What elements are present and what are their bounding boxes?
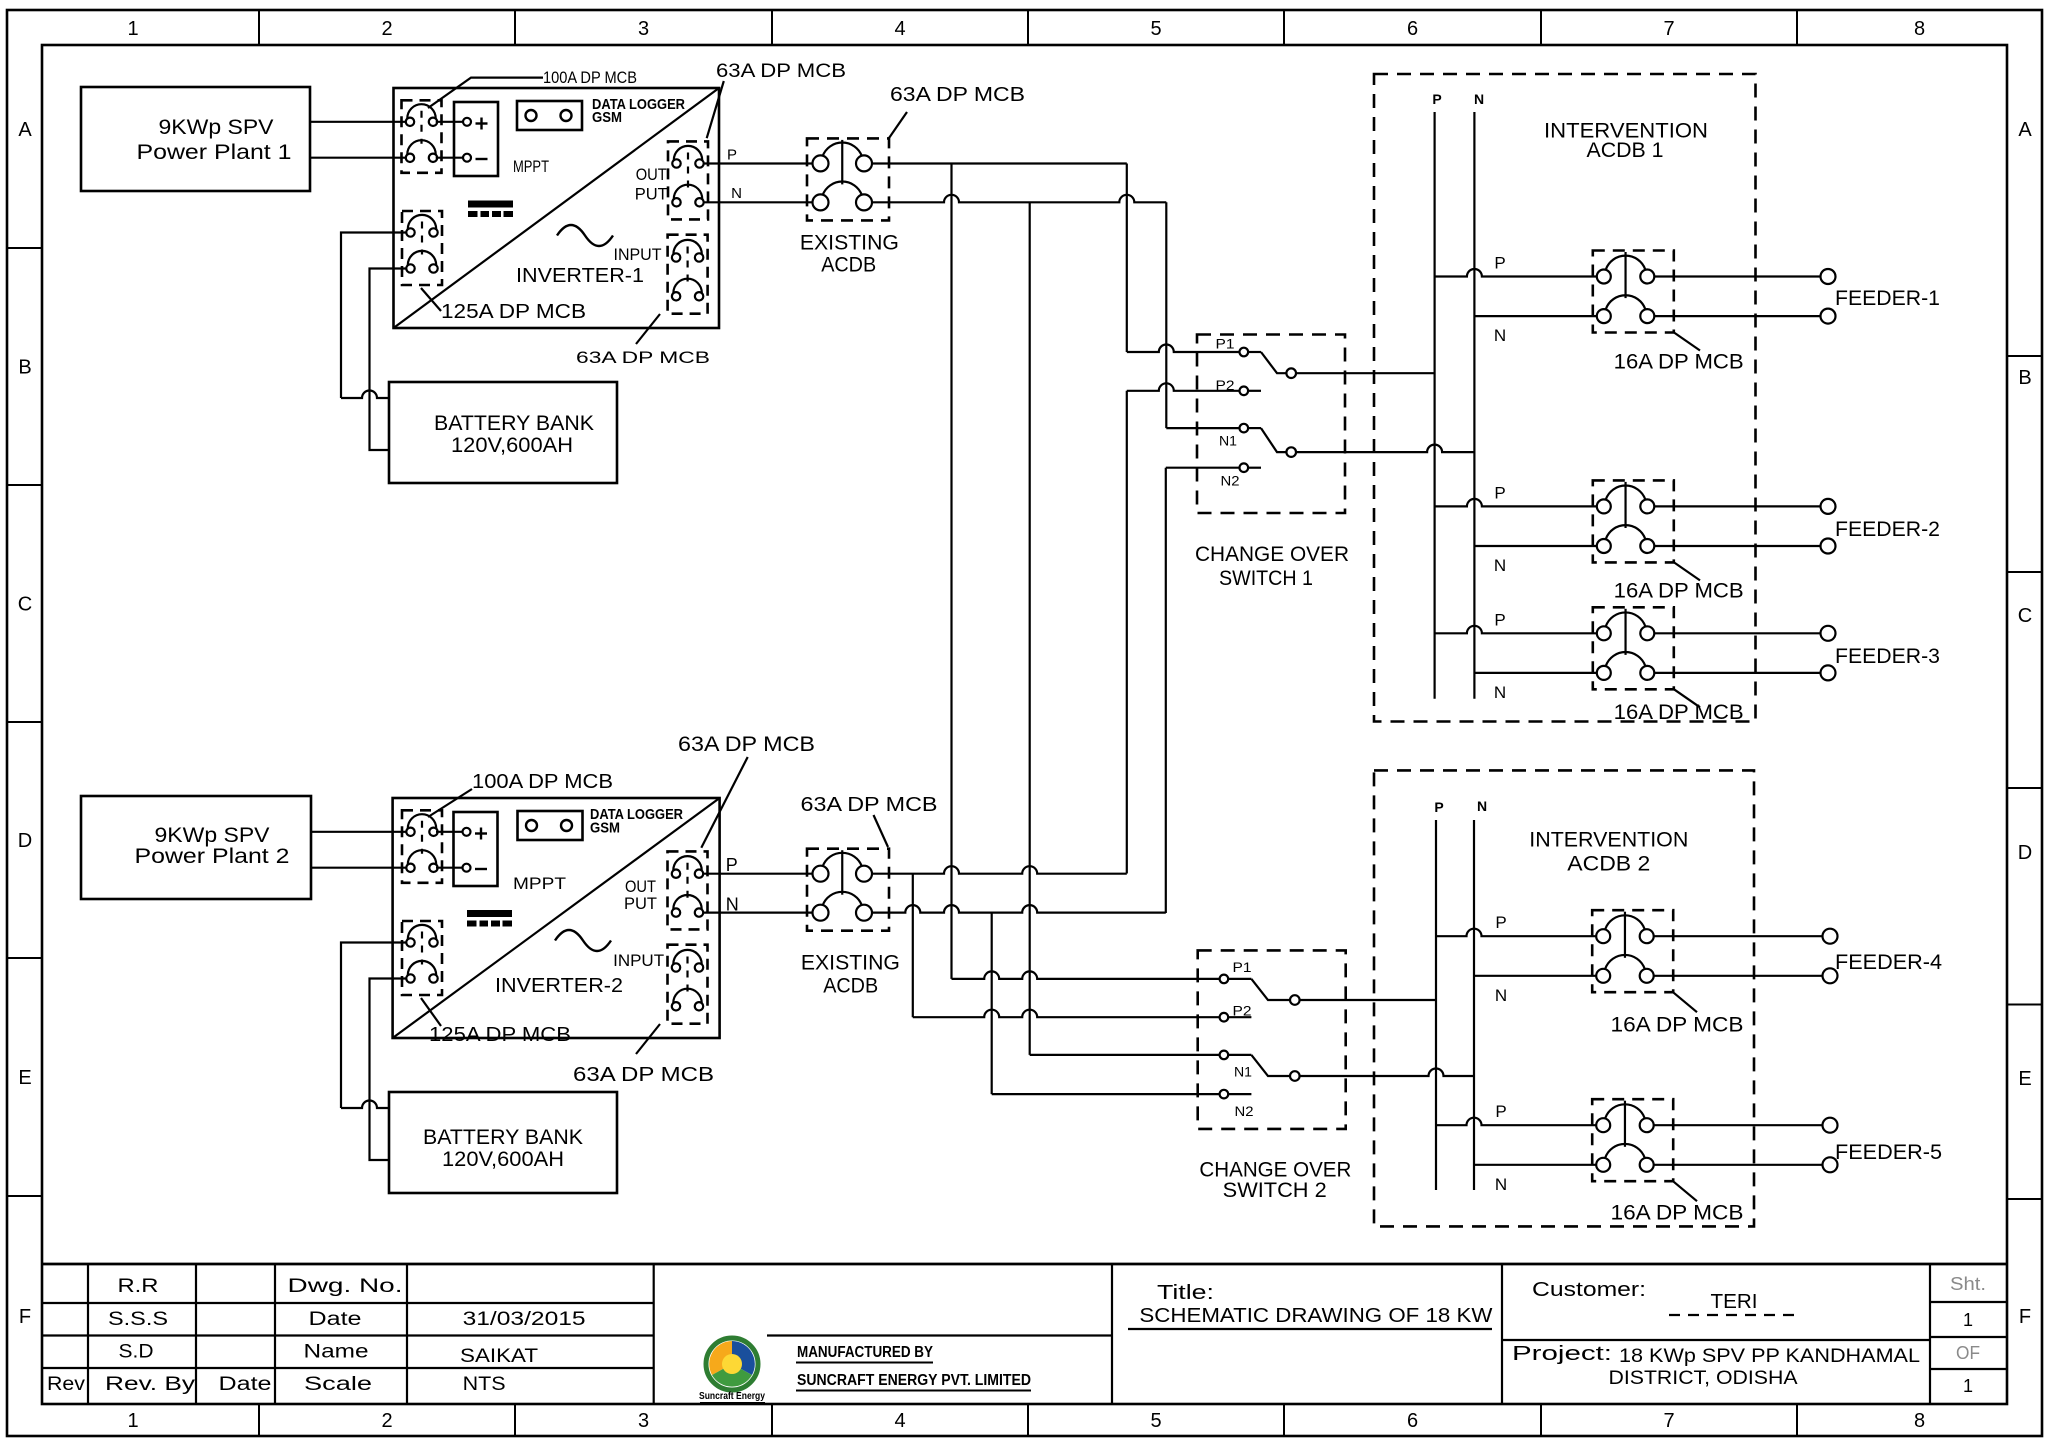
symbol: AC sine (inverter 1): [557, 225, 613, 246]
switch: CHANGE OVER SWITCH 1: [1197, 335, 1345, 514]
svg-text:SUNCRAFT ENERGY PVT. LIMITED: SUNCRAFT ENERGY PVT. LIMITED: [797, 1372, 1031, 1389]
svg-text:3: 3: [638, 1410, 649, 1432]
svg-text:N: N: [731, 185, 742, 202]
wire: 100A MCB to MPPT +: [436, 121, 463, 123]
terminal: FEEDER-3 N: [1821, 665, 1836, 680]
svg-text:9KWp SPV: 9KWp SPV: [155, 824, 270, 847]
svg-text:6: 6: [1407, 18, 1418, 40]
breaker: 16A DP MCB (FEEDER-4): [1592, 910, 1673, 992]
wire: changeover2 P output to ACDB2 P bus: [1300, 999, 1436, 1001]
svg-text:ACDB: ACDB: [823, 975, 878, 998]
terminal: FEEDER-2 P: [1821, 499, 1836, 514]
svg-text:INPUT: INPUT: [614, 245, 662, 264]
label: CHANGE OVER SWITCH 2: [1199, 1159, 1351, 1202]
svg-text:PUT: PUT: [624, 894, 657, 913]
svg-text:4: 4: [894, 18, 905, 40]
svg-text:FEEDER-4: FEEDER-4: [1835, 951, 1942, 974]
svg-text:E: E: [18, 1067, 31, 1089]
svg-text:N: N: [1494, 326, 1506, 345]
wire: FEEDER-3 N out: [1655, 672, 1822, 674]
svg-text:1: 1: [1963, 1310, 1973, 1330]
breaker: 100A DP MCB (PV input, inverter 2): [402, 810, 442, 883]
wire: FEEDER-4 N out: [1654, 975, 1823, 977]
wire: FEEDER-2 P out: [1655, 505, 1822, 507]
wire: changeover1 N output to ACDB1 N bus: [1296, 445, 1474, 453]
svg-text:Date: Date: [309, 1309, 362, 1330]
svg-text:18 KWp SPV PP KANDHAMAL: 18 KWp SPV PP KANDHAMAL: [1619, 1346, 1920, 1367]
svg-text:MPPT: MPPT: [513, 874, 566, 893]
label: 100A DP MCB (leader, inverter 2): [428, 771, 613, 817]
wire: FEEDER-3 P out: [1655, 632, 1822, 634]
svg-text:N: N: [1477, 798, 1487, 814]
svg-text:Dwg. No.: Dwg. No.: [288, 1276, 403, 1297]
wire: battery 1 lead B: [370, 269, 407, 451]
label: EXISTING ACDB (2): [801, 952, 900, 998]
svg-text:BATTERY BANK: BATTERY BANK: [423, 1126, 583, 1149]
svg-text:GSM: GSM: [590, 820, 620, 837]
svg-text:F: F: [2019, 1306, 2031, 1328]
svg-text:Power Plant 1: Power Plant 1: [137, 141, 292, 164]
inverter: INVERTER-2 enclosure: [393, 798, 720, 1038]
svg-text:63A DP MCB: 63A DP MCB: [890, 84, 1025, 106]
svg-text:P2: P2: [1233, 1004, 1252, 1019]
label: 16A DP MCB (FEEDER-3): [1614, 689, 1744, 724]
svg-text:Scale: Scale: [304, 1374, 372, 1395]
wire: N branch to 16A MCB (FEEDER-5): [1474, 1164, 1596, 1166]
svg-text:63A DP MCB: 63A DP MCB: [576, 349, 710, 367]
svg-text:FEEDER-1: FEEDER-1: [1835, 287, 1940, 310]
wire: FEEDER-2 N out: [1655, 545, 1822, 547]
svg-text:FEEDER-2: FEEDER-2: [1835, 518, 1940, 541]
wire: FEEDER-5 P out: [1654, 1124, 1823, 1126]
svg-text:63A DP MCB: 63A DP MCB: [573, 1064, 714, 1086]
svg-text:N: N: [1494, 556, 1506, 575]
label: 16A DP MCB (FEEDER-5): [1611, 1181, 1744, 1224]
svg-text:P: P: [1495, 1102, 1506, 1121]
wire: P feed down to changeover2 P1: [952, 164, 1220, 979]
wire: PV2 negative lead: [311, 867, 406, 869]
symbol: DC link (inverter 1): [468, 201, 513, 218]
wire: PV1 negative lead: [310, 157, 406, 159]
wire: N branch to 16A MCB (FEEDER-4): [1474, 975, 1596, 977]
svg-text:EXISTING: EXISTING: [800, 232, 899, 255]
wire: inverter 1 P to existing ACDB 1: [704, 162, 813, 164]
wire: changeover1 P output to ACDB1 P bus: [1296, 372, 1435, 374]
svg-text:P: P: [1495, 913, 1506, 932]
svg-text:Rev. By: Rev. By: [105, 1374, 196, 1395]
wire: N2 feed up to changeover1 (from ACDB2 N): [1166, 468, 1240, 913]
svg-text:S.D: S.D: [119, 1342, 154, 1363]
box: BATTERY BANK 120V,600AH (1): [389, 382, 617, 483]
wire: FEEDER-1 N out: [1655, 315, 1822, 317]
svg-text:2: 2: [381, 1410, 392, 1432]
switch: CHANGE OVER SWITCH 2: [1198, 950, 1346, 1129]
breaker: 63A DP MCB (input, inverter 2): [668, 945, 708, 1024]
svg-text:INPUT: INPUT: [613, 951, 664, 970]
module: DATA LOGGER GSM (inverter 1): [517, 96, 685, 130]
net: N bus (ACDB 2): [1474, 798, 1487, 1190]
svg-text:D: D: [18, 830, 32, 852]
wire: inverter 1 N to existing ACDB 1: [704, 201, 813, 203]
wire: P2 feed up to changeover1 (from ACDB2 P): [1126, 391, 1128, 874]
svg-text:5: 5: [1150, 1410, 1161, 1432]
breaker: EXISTING ACDB 63A DP MCB (2): [807, 849, 889, 931]
svg-text:16A DP MCB: 16A DP MCB: [1611, 1013, 1744, 1036]
svg-text:N: N: [1494, 683, 1506, 702]
label: CHANGE OVER SWITCH 1: [1195, 543, 1349, 590]
svg-text:N2: N2: [1235, 1104, 1254, 1119]
svg-text:EXISTING: EXISTING: [801, 952, 900, 975]
svg-text:63A DP MCB: 63A DP MCB: [716, 61, 846, 82]
breaker: 16A DP MCB (FEEDER-5): [1592, 1099, 1673, 1181]
wire: N feed down to changeover2 N1: [1030, 202, 1220, 1055]
wire: battery 2 lead B: [370, 979, 407, 1161]
svg-text:6: 6: [1407, 1410, 1418, 1432]
svg-text:120V,600AH: 120V,600AH: [442, 1148, 564, 1171]
svg-text:MPPT: MPPT: [513, 157, 549, 176]
wire: inverter 2 P to existing ACDB 2: [704, 873, 813, 875]
label: 16A DP MCB (FEEDER-1): [1614, 333, 1744, 374]
wire: N branch to 16A MCB (FEEDER-2): [1474, 545, 1596, 547]
svg-text:Rev: Rev: [47, 1374, 86, 1395]
panel: INTERVENTION ACDB 2: [1374, 770, 1754, 1226]
svg-text:Project:: Project:: [1512, 1343, 1612, 1365]
wire: inverter 2 N to existing ACDB 2: [704, 911, 813, 913]
svg-text:P2: P2: [1216, 378, 1235, 393]
wire: P from ACDB2 up to changeover1 P2: [873, 866, 1127, 873]
symbol: AC sine (inverter 2): [555, 930, 611, 951]
box: 9KWp SPV Power Plant 1: [81, 87, 310, 191]
charge controller: MPPT (inverter 2): [454, 812, 567, 893]
svg-text:A: A: [2018, 119, 2032, 141]
svg-text:MANUFACTURED BY: MANUFACTURED BY: [797, 1344, 933, 1361]
svg-text:N: N: [1495, 1175, 1507, 1194]
svg-text:E: E: [2018, 1068, 2031, 1090]
svg-text:1: 1: [127, 1410, 138, 1432]
svg-text:16A DP MCB: 16A DP MCB: [1611, 1202, 1744, 1225]
svg-text:63A DP MCB: 63A DP MCB: [678, 733, 815, 756]
svg-text:7: 7: [1663, 1410, 1674, 1432]
panel: INTERVENTION ACDB 1: [1374, 74, 1756, 722]
svg-text:16A DP MCB: 16A DP MCB: [1614, 351, 1744, 374]
terminal: FEEDER-1 N: [1821, 309, 1836, 324]
svg-text:P: P: [1432, 91, 1441, 107]
wire: P from ACDB1 to changeover1 P1: [873, 164, 1240, 353]
terminal: FEEDER-3 P: [1821, 626, 1836, 641]
wire: N branch down to changeover2 N2: [992, 913, 1219, 1095]
breaker: 100A DP MCB (PV input, inverter 1): [402, 100, 442, 173]
svg-text:N1: N1: [1219, 434, 1237, 449]
wire: 100A MCB to MPPT - (2): [436, 867, 463, 869]
terminal: FEEDER-4 N: [1823, 968, 1838, 983]
svg-text:125A DP MCB: 125A DP MCB: [429, 1024, 571, 1046]
svg-text:8: 8: [1914, 18, 1925, 40]
module: DATA LOGGER GSM (inverter 2): [518, 806, 684, 840]
svg-text:Name: Name: [304, 1342, 369, 1363]
wire: battery 2 lead A: [341, 943, 406, 1109]
svg-text:5: 5: [1150, 18, 1161, 40]
wire: N branch to 16A MCB (FEEDER-1): [1474, 315, 1596, 317]
svg-text:P: P: [726, 855, 738, 875]
label: 63A DP MCB (output leader, inverter 2): [678, 733, 815, 848]
label: 63A DP MCB (input leader, inverter 2): [573, 1024, 714, 1086]
wire: FEEDER-5 N out: [1654, 1164, 1823, 1166]
symbol: DC link (inverter 2): [467, 910, 512, 927]
label: OUT PUT (inverter 1): [635, 165, 668, 204]
wire: P branch to 16A MCB (FEEDER-4): [1436, 929, 1596, 936]
svg-text:16A DP MCB: 16A DP MCB: [1614, 579, 1744, 602]
svg-text:ACDB 2: ACDB 2: [1567, 853, 1650, 876]
breaker: 16A DP MCB (FEEDER-3): [1593, 607, 1674, 689]
svg-text:INVERTER-2: INVERTER-2: [495, 975, 623, 997]
svg-text:P: P: [1494, 610, 1505, 629]
svg-text:ACDB 1: ACDB 1: [1587, 139, 1664, 162]
svg-text:1: 1: [127, 18, 138, 40]
svg-text:P1: P1: [1216, 336, 1235, 351]
svg-text:Power Plant 2: Power Plant 2: [135, 845, 290, 868]
breaker: 16A DP MCB (FEEDER-1): [1593, 251, 1674, 333]
svg-text:OUT: OUT: [636, 165, 667, 184]
svg-text:100A DP MCB: 100A DP MCB: [472, 771, 613, 793]
svg-text:N2: N2: [1221, 473, 1240, 488]
net: N bus (ACDB 1): [1474, 91, 1484, 699]
label: 16A DP MCB (FEEDER-4): [1611, 992, 1744, 1036]
svg-text:N: N: [1474, 91, 1484, 107]
svg-text:SAIKAT: SAIKAT: [460, 1346, 538, 1367]
svg-text:2: 2: [381, 18, 392, 40]
box: BATTERY BANK 120V,600AH (2): [389, 1092, 617, 1193]
wire: P branch to 16A MCB (FEEDER-2): [1435, 499, 1597, 506]
svg-text:63A DP MCB: 63A DP MCB: [801, 794, 938, 816]
label: 63A DP MCB (ACDB 2 leader): [801, 794, 938, 847]
label: 125A DP MCB (leader, inverter 2): [421, 998, 571, 1046]
svg-text:P: P: [727, 147, 737, 164]
svg-text:1: 1: [1963, 1376, 1973, 1396]
breaker: 63A DP MCB (output, inverter 1): [668, 141, 708, 219]
svg-text:SWITCH 2: SWITCH 2: [1223, 1179, 1327, 1202]
title block: [42, 1264, 2007, 1404]
terminal: FEEDER-5 P: [1823, 1118, 1838, 1133]
svg-text:16A DP MCB: 16A DP MCB: [1614, 701, 1744, 724]
svg-text:CHANGE OVER: CHANGE OVER: [1195, 543, 1349, 566]
terminal: FEEDER-2 N: [1821, 539, 1836, 554]
terminal: FEEDER-4 P: [1823, 929, 1838, 944]
wire: PV2 positive lead: [311, 831, 406, 833]
box: 9KWp SPV Power Plant 2: [81, 796, 311, 899]
svg-text:100A DP MCB: 100A DP MCB: [543, 69, 637, 87]
svg-text:GSM: GSM: [592, 109, 622, 126]
svg-text:INVERTER-1: INVERTER-1: [516, 265, 644, 287]
svg-text:C: C: [2018, 605, 2032, 627]
label: 63A DP MCB (ACDB 1 leader): [889, 84, 1025, 138]
svg-text:7: 7: [1663, 18, 1674, 40]
svg-text:9KWp SPV: 9KWp SPV: [159, 116, 274, 139]
wire: FEEDER-4 P out: [1654, 935, 1823, 937]
svg-text:F: F: [19, 1306, 31, 1328]
breaker: 125A DP MCB (battery, inverter 1): [402, 211, 442, 285]
svg-text:Customer:: Customer:: [1532, 1279, 1646, 1301]
breaker: EXISTING ACDB 63A DP MCB (1): [807, 138, 889, 220]
inverter: INVERTER-1 enclosure: [394, 88, 720, 328]
svg-text:S.S.S: S.S.S: [108, 1309, 168, 1330]
svg-text:Suncraft Energy: Suncraft Energy: [699, 1390, 765, 1402]
wire: N from ACDB2 up to changeover1 N2: [873, 905, 1166, 913]
svg-text:TERI: TERI: [1711, 1291, 1758, 1313]
svg-text:NTS: NTS: [463, 1374, 506, 1395]
svg-text:FEEDER-3: FEEDER-3: [1835, 645, 1940, 668]
label: 100A DP MCB (leader): [428, 69, 637, 108]
svg-text:4: 4: [894, 1410, 905, 1432]
svg-text:INTERVENTION: INTERVENTION: [1529, 828, 1688, 851]
svg-text:P: P: [1494, 254, 1505, 273]
net: P bus (ACDB 1): [1432, 91, 1441, 699]
svg-text:FEEDER-5: FEEDER-5: [1835, 1141, 1942, 1164]
terminal: FEEDER-5 N: [1823, 1157, 1838, 1172]
label: 125A DP MCB (leader): [421, 288, 586, 323]
wire: 100A MCB to MPPT -: [436, 157, 463, 159]
svg-text:C: C: [18, 594, 32, 616]
svg-text:PUT: PUT: [635, 185, 668, 204]
svg-text:B: B: [18, 357, 31, 379]
svg-text:N1: N1: [1234, 1065, 1252, 1080]
svg-text:OF: OF: [1956, 1343, 1980, 1363]
svg-text:P: P: [1434, 799, 1443, 815]
wire: FEEDER-1 P out: [1655, 275, 1822, 277]
svg-text:R.R: R.R: [118, 1276, 159, 1297]
svg-text:Date: Date: [219, 1374, 272, 1395]
wire: N branch to 16A MCB (FEEDER-3): [1474, 672, 1596, 674]
label: 63A DP MCB (output leader, inverter 1): [707, 61, 846, 138]
label: OUT PUT (inverter 2): [624, 877, 657, 913]
svg-text:31/03/2015: 31/03/2015: [463, 1309, 586, 1330]
svg-text:D: D: [2018, 842, 2032, 864]
svg-text:SWITCH 1: SWITCH 1: [1219, 567, 1313, 590]
wire: P branch to 16A MCB (FEEDER-1): [1435, 269, 1597, 277]
svg-text:120V,600AH: 120V,600AH: [451, 434, 573, 457]
wire: P branch down to changeover2 P2: [913, 874, 1219, 1018]
charge controller: MPPT (inverter 1): [454, 102, 549, 176]
svg-text:DISTRICT, ODISHA: DISTRICT, ODISHA: [1609, 1368, 1798, 1389]
svg-text:N: N: [1495, 986, 1507, 1005]
svg-text:SCHEMATIC DRAWING OF 18 KW: SCHEMATIC DRAWING OF 18 KW: [1139, 1305, 1492, 1327]
svg-text:Title:: Title:: [1157, 1282, 1214, 1304]
svg-text:A: A: [18, 119, 32, 141]
breaker: 63A DP MCB (input, inverter 1): [668, 235, 708, 314]
svg-text:3: 3: [638, 18, 649, 40]
wire: changeover1 P2 horizontal: [1127, 383, 1240, 391]
wire: changeover2 N output to ACDB2 N bus: [1300, 1069, 1474, 1077]
wire: 100A MCB to MPPT + (2): [436, 831, 463, 833]
svg-text:BATTERY BANK: BATTERY BANK: [434, 412, 594, 435]
logo: Suncraft Energy emblem: [699, 1338, 765, 1403]
wire: P branch to 16A MCB (FEEDER-5): [1436, 1118, 1596, 1125]
net: P bus (ACDB 2): [1434, 799, 1443, 1190]
svg-text:125A DP MCB: 125A DP MCB: [441, 301, 586, 323]
terminal: FEEDER-1 P: [1821, 269, 1836, 284]
svg-text:P: P: [1494, 483, 1505, 502]
wire: PV1 positive lead: [310, 121, 406, 123]
label: 63A DP MCB (input leader, inverter 1): [576, 314, 710, 367]
wire: N from ACDB1 to changeover1 N1: [873, 195, 1240, 428]
wire: battery 1 lead A: [341, 233, 406, 399]
svg-text:ACDB: ACDB: [821, 254, 876, 277]
svg-text:8: 8: [1914, 1410, 1925, 1432]
svg-text:B: B: [2018, 367, 2031, 389]
svg-text:P1: P1: [1233, 960, 1252, 975]
breaker: 125A DP MCB (battery, inverter 2): [402, 921, 442, 995]
label: 16A DP MCB (FEEDER-2): [1614, 562, 1744, 602]
breaker: 63A DP MCB (output, inverter 2): [668, 851, 708, 929]
wire: P branch to 16A MCB (FEEDER-3): [1435, 626, 1597, 633]
svg-text:Sht.: Sht.: [1950, 1274, 1986, 1294]
breaker: 16A DP MCB (FEEDER-2): [1593, 480, 1674, 562]
label: EXISTING ACDB (1): [800, 232, 899, 277]
